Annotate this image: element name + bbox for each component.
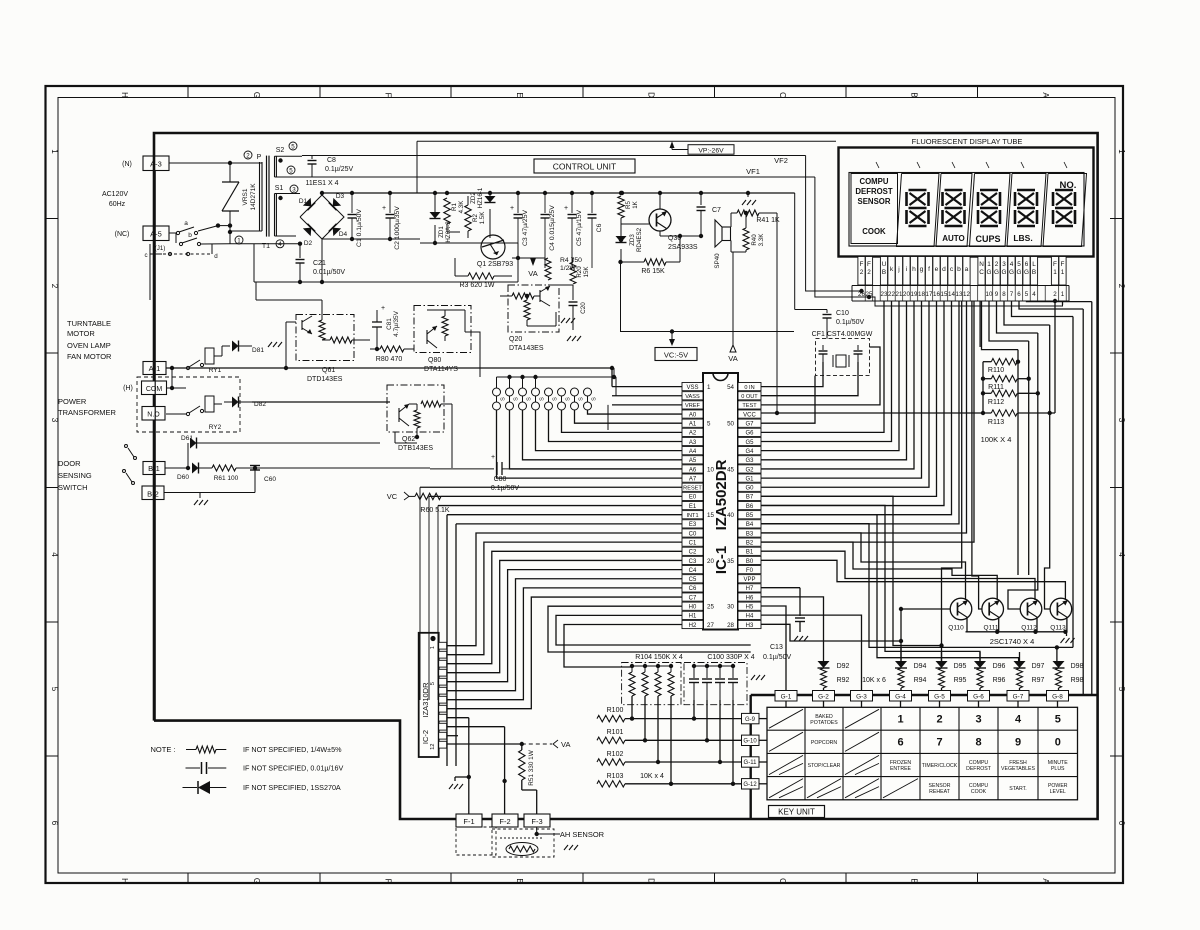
switch contact b bbox=[175, 233, 177, 243]
svg-text:1: 1 bbox=[897, 714, 903, 726]
svg-text:TEST: TEST bbox=[742, 403, 757, 409]
svg-text:22: 22 bbox=[888, 291, 895, 298]
svg-text:F: F bbox=[860, 261, 864, 268]
svg-text:C2: C2 bbox=[689, 550, 697, 556]
wires C100 columns down bbox=[693, 700, 695, 719]
resistor R94 bbox=[898, 668, 904, 688]
block Q62 DTB143ES bbox=[387, 385, 444, 432]
gate terminal G-9 bbox=[742, 713, 760, 723]
svg-text:CUPS: CUPS bbox=[975, 234, 1000, 244]
svg-text:0.1µ/50V: 0.1µ/50V bbox=[491, 485, 519, 492]
svg-text:D61: D61 bbox=[181, 435, 193, 442]
svg-text:11ES1 X 4: 11ES1 X 4 bbox=[306, 180, 339, 187]
svg-text:R113: R113 bbox=[988, 419, 1004, 426]
svg-text:S: S bbox=[553, 397, 559, 401]
svg-text:R6 15K: R6 15K bbox=[641, 268, 665, 275]
svg-text:A5: A5 bbox=[689, 458, 697, 464]
svg-text:S: S bbox=[514, 397, 520, 401]
IC-1 pin G7 bbox=[738, 419, 761, 427]
svg-text:SWITCH: SWITCH bbox=[58, 483, 88, 492]
svg-text:6: 6 bbox=[1117, 821, 1126, 826]
svg-text:C1 0.1µ/50V: C1 0.1µ/50V bbox=[356, 209, 363, 247]
resistor R40 3.3K bbox=[743, 228, 749, 250]
transistor Q1 2SB793 bbox=[481, 235, 505, 259]
IC-2 pin 10 bbox=[439, 723, 447, 730]
svg-text:H2: H2 bbox=[689, 623, 697, 629]
svg-text:F: F bbox=[384, 93, 393, 98]
svg-text:G: G bbox=[1002, 269, 1007, 276]
svg-text:6: 6 bbox=[50, 821, 59, 826]
svg-text:KEY UNIT: KEY UNIT bbox=[778, 808, 815, 817]
display digit 4 bbox=[1017, 189, 1035, 192]
svg-text:C4 0.015µ/25V: C4 0.015µ/25V bbox=[549, 205, 556, 251]
svg-text:VRS1: VRS1 bbox=[242, 188, 249, 205]
svg-text:A4: A4 bbox=[689, 449, 697, 455]
svg-text:VEGETABLES: VEGETABLES bbox=[1001, 766, 1035, 772]
wire top supply bus bbox=[322, 192, 795, 194]
IC-1 pin A2 bbox=[682, 428, 703, 436]
wires right bundle bottom bbox=[1069, 647, 1073, 649]
svg-text:C10: C10 bbox=[836, 310, 849, 317]
svg-text:Q110: Q110 bbox=[948, 625, 964, 632]
svg-text:A2: A2 bbox=[689, 431, 697, 437]
zener ZD1 HZ6A-3 bbox=[434, 193, 436, 218]
IC-2 pin 7 bbox=[439, 696, 447, 703]
svg-text:VA: VA bbox=[528, 269, 537, 278]
terminal A-3 bbox=[143, 156, 169, 171]
wire mid return bbox=[322, 238, 420, 240]
capacitor C1 bbox=[351, 193, 353, 213]
svg-text:CF1 CST4.00MGW: CF1 CST4.00MGW bbox=[812, 331, 873, 338]
diode D97 bbox=[1014, 661, 1026, 668]
svg-text:DEFROST: DEFROST bbox=[855, 187, 892, 196]
capacitor C21 bbox=[299, 244, 301, 258]
ground transistors bbox=[1066, 632, 1068, 636]
IC-1 pin INT1 bbox=[682, 511, 703, 519]
svg-text:3: 3 bbox=[1117, 418, 1126, 423]
capacitor C60 bbox=[253, 466, 257, 470]
svg-text:12: 12 bbox=[963, 291, 970, 298]
svg-text:A7: A7 bbox=[689, 476, 697, 482]
IC-1 pin G4 bbox=[738, 447, 761, 455]
svg-text:R110: R110 bbox=[988, 367, 1004, 374]
resistor R5 1K bbox=[620, 193, 622, 196]
diode D95 bbox=[936, 661, 948, 668]
display digit 5 bbox=[1055, 189, 1073, 192]
svg-text:G: G bbox=[1024, 269, 1029, 276]
IC-2 pin 4 bbox=[439, 669, 447, 676]
svg-text:G: G bbox=[987, 269, 992, 276]
svg-text:A-3: A-3 bbox=[150, 160, 162, 169]
IC-1 pin C3 bbox=[682, 556, 703, 564]
svg-text:27: 27 bbox=[707, 622, 714, 629]
svg-text:S: S bbox=[579, 397, 585, 401]
svg-text:G-4: G-4 bbox=[895, 694, 906, 701]
svg-text:B4: B4 bbox=[746, 522, 754, 528]
svg-text:D2: D2 bbox=[304, 240, 313, 247]
svg-text:15K: 15K bbox=[583, 266, 590, 278]
capacitor C6 bbox=[591, 193, 593, 213]
svg-text:ZD2: ZD2 bbox=[470, 192, 477, 204]
wire H0-H2 left down bbox=[548, 606, 751, 652]
svg-text:C60: C60 bbox=[264, 476, 276, 483]
svg-text:14: 14 bbox=[948, 291, 955, 298]
svg-text:0.01µ/50V: 0.01µ/50V bbox=[313, 269, 345, 276]
resistor R2 1.5K bbox=[465, 205, 471, 231]
wire F1 return bbox=[869, 297, 1063, 306]
svg-text:TURNTABLE: TURNTABLE bbox=[67, 319, 111, 328]
svg-text:B3: B3 bbox=[746, 531, 754, 537]
IC-1 pin VPP bbox=[738, 575, 761, 583]
diode D1 bbox=[303, 198, 315, 210]
svg-text:POPCORN: POPCORN bbox=[811, 740, 837, 746]
resistor R92 bbox=[821, 668, 827, 688]
svg-text:VSS: VSS bbox=[686, 385, 698, 391]
keypad grid bbox=[767, 707, 1078, 800]
svg-text:R41 1K: R41 1K bbox=[756, 217, 780, 224]
resistor R1 4.3K bbox=[446, 193, 448, 198]
resistor R97 bbox=[1017, 668, 1023, 688]
svg-text:H: H bbox=[120, 92, 129, 98]
svg-text:B: B bbox=[882, 269, 886, 276]
svg-text:C4: C4 bbox=[689, 568, 697, 574]
svg-text:E3: E3 bbox=[689, 522, 697, 528]
svg-text:13: 13 bbox=[956, 291, 963, 298]
svg-text:D60: D60 bbox=[177, 474, 189, 481]
svg-text:1.5K: 1.5K bbox=[479, 211, 486, 225]
IC-1 pin E1 bbox=[682, 501, 703, 509]
svg-text:S: S bbox=[527, 397, 533, 401]
svg-text:R97: R97 bbox=[1032, 677, 1045, 684]
svg-text:6: 6 bbox=[1017, 291, 1021, 298]
svg-text:A-5: A-5 bbox=[150, 230, 162, 239]
IC-1 pin H6 bbox=[738, 593, 761, 601]
svg-text:ENTREE: ENTREE bbox=[890, 766, 912, 772]
svg-text:A: A bbox=[1041, 878, 1050, 884]
svg-text:7: 7 bbox=[1010, 291, 1014, 298]
svg-text:G: G bbox=[252, 92, 261, 98]
switch contact a bbox=[169, 232, 176, 234]
svg-text:f: f bbox=[928, 266, 930, 273]
transistor Q113 bbox=[1050, 598, 1072, 620]
IC-1 pin H1 bbox=[682, 611, 703, 619]
svg-text:4: 4 bbox=[278, 241, 282, 248]
diode D2 bbox=[303, 224, 315, 236]
svg-text:25: 25 bbox=[707, 604, 714, 611]
svg-text:Q20: Q20 bbox=[509, 336, 522, 343]
svg-text:4: 4 bbox=[50, 552, 59, 557]
svg-text:G-11: G-11 bbox=[744, 760, 758, 766]
svg-text:R80 470: R80 470 bbox=[376, 356, 403, 363]
svg-text:G: G bbox=[252, 878, 261, 884]
svg-text:0.1µ/25V: 0.1µ/25V bbox=[325, 166, 353, 173]
svg-text:+: + bbox=[491, 454, 495, 461]
svg-text:S: S bbox=[501, 397, 507, 401]
svg-text:9: 9 bbox=[1015, 737, 1021, 749]
svg-text:FAN MOTOR: FAN MOTOR bbox=[67, 352, 112, 361]
terminal A-1 bbox=[143, 362, 166, 375]
diode D96 bbox=[974, 661, 986, 668]
capacitor C80 bbox=[430, 468, 494, 470]
svg-text:H4: H4 bbox=[746, 614, 754, 620]
IC-1 pin B0 bbox=[738, 556, 761, 564]
gate terminal G-11 bbox=[742, 757, 760, 767]
svg-text:F-1: F-1 bbox=[463, 817, 474, 826]
svg-text:INT1: INT1 bbox=[686, 513, 698, 519]
wire S1 to bridge bbox=[299, 194, 301, 218]
svg-text:C13: C13 bbox=[770, 644, 783, 651]
svg-text:G-3: G-3 bbox=[856, 694, 867, 701]
svg-text:VA: VA bbox=[728, 354, 737, 363]
svg-text:AC120V: AC120V bbox=[102, 191, 128, 198]
svg-text:RESET: RESET bbox=[683, 486, 702, 492]
svg-text:DTB143ES: DTB143ES bbox=[398, 445, 433, 452]
svg-text:C5 47µ/15V: C5 47µ/15V bbox=[576, 210, 583, 247]
svg-text:COMPU: COMPU bbox=[859, 177, 888, 186]
svg-text:SP40: SP40 bbox=[714, 253, 721, 269]
svg-text:B0: B0 bbox=[746, 559, 754, 565]
wire IC-1 pin G7 bbox=[761, 376, 815, 424]
key unit bus bbox=[751, 694, 1098, 696]
relay dashed box bbox=[137, 377, 240, 432]
svg-text:45: 45 bbox=[727, 466, 734, 473]
IC-1 pin 0 OUT bbox=[738, 392, 761, 400]
transistor base wires bbox=[901, 608, 950, 610]
svg-text:D94: D94 bbox=[914, 663, 927, 670]
svg-text:H5: H5 bbox=[746, 605, 754, 611]
svg-text:CONTROL UNIT: CONTROL UNIT bbox=[553, 162, 616, 172]
svg-text:B2: B2 bbox=[746, 540, 754, 546]
svg-text:S1: S1 bbox=[275, 185, 284, 192]
VC -5V box bbox=[655, 348, 697, 361]
svg-text:H6: H6 bbox=[746, 595, 754, 601]
svg-text:7: 7 bbox=[936, 737, 942, 749]
svg-text:G-1: G-1 bbox=[781, 694, 792, 701]
terminal B-2 bbox=[142, 486, 164, 500]
svg-text:D: D bbox=[647, 878, 656, 884]
svg-text:A: A bbox=[1041, 92, 1050, 98]
svg-text:26: 26 bbox=[858, 291, 865, 298]
resistor R80 470 bbox=[369, 340, 371, 349]
gate terminal G-10 bbox=[742, 735, 760, 745]
ground above R41 bbox=[747, 193, 749, 197]
svg-text:VA: VA bbox=[561, 740, 570, 749]
wire bottom return bus bbox=[254, 281, 518, 283]
svg-text:10: 10 bbox=[986, 291, 993, 298]
svg-text:0.1µ/50V: 0.1µ/50V bbox=[836, 319, 864, 326]
capacitor C5 bbox=[571, 193, 573, 213]
diode D98 bbox=[1053, 661, 1065, 668]
jumper top wires bbox=[497, 376, 615, 378]
svg-text:G: G bbox=[1017, 269, 1022, 276]
svg-text:R51 330 1W: R51 330 1W bbox=[528, 749, 535, 785]
transistor block Q61 DTD143ES bbox=[296, 315, 354, 361]
svg-text:MOTOR: MOTOR bbox=[67, 329, 95, 338]
diode D81 bbox=[221, 346, 223, 356]
svg-text:4: 4 bbox=[1032, 291, 1036, 298]
diode D82 bbox=[214, 403, 222, 405]
svg-text:VPP: VPP bbox=[743, 577, 755, 583]
svg-text:19: 19 bbox=[911, 291, 918, 298]
IC-1 pin E3 bbox=[682, 520, 703, 528]
IC-1 pin A3 bbox=[682, 437, 703, 445]
svg-text:C6: C6 bbox=[689, 586, 697, 592]
svg-text:R95: R95 bbox=[954, 677, 967, 684]
diode D61 bbox=[165, 467, 188, 469]
svg-text:R40: R40 bbox=[751, 234, 758, 246]
svg-text:TIMER/CLOCK: TIMER/CLOCK bbox=[922, 763, 958, 769]
svg-text:G5: G5 bbox=[745, 440, 754, 446]
svg-text:D98: D98 bbox=[1071, 663, 1084, 670]
svg-text:R100: R100 bbox=[607, 707, 624, 714]
IC-1 pin C4 bbox=[682, 566, 703, 574]
IC-1 pin C0 bbox=[682, 529, 703, 537]
svg-text:1K: 1K bbox=[632, 200, 639, 208]
svg-text:ZD1: ZD1 bbox=[438, 226, 445, 238]
svg-text:50: 50 bbox=[727, 421, 734, 428]
svg-text:R60 5.1K: R60 5.1K bbox=[420, 507, 450, 514]
svg-text:+: + bbox=[381, 305, 385, 312]
IC-1 pin H0 bbox=[682, 602, 703, 610]
svg-text:1: 1 bbox=[1117, 149, 1126, 154]
svg-text:b: b bbox=[957, 266, 961, 273]
svg-text:POWER: POWER bbox=[58, 397, 87, 406]
svg-text:40: 40 bbox=[727, 512, 734, 519]
svg-text:F0: F0 bbox=[746, 568, 754, 574]
svg-text:(N): (N) bbox=[122, 161, 132, 168]
diode D4 bbox=[329, 224, 341, 236]
capacitor C10 bbox=[794, 193, 796, 310]
svg-text:H0: H0 bbox=[689, 605, 697, 611]
transistor block Q80 DTA114YS bbox=[414, 306, 471, 353]
svg-text:R94: R94 bbox=[914, 677, 927, 684]
svg-text:28: 28 bbox=[727, 622, 734, 629]
IC-1 pin H5 bbox=[738, 602, 761, 610]
svg-text:G-7: G-7 bbox=[1013, 694, 1024, 701]
svg-text:VP:-26V: VP:-26V bbox=[698, 147, 724, 154]
IC-1 pin VCC bbox=[738, 410, 761, 418]
resistor R41 1K bbox=[737, 210, 759, 216]
wire display pin bundle right bbox=[982, 301, 1019, 350]
svg-text:LEVEL: LEVEL bbox=[1050, 789, 1066, 795]
wire VF2 bbox=[302, 155, 806, 157]
resistor R3 620 1W bbox=[455, 275, 468, 277]
svg-text:a: a bbox=[184, 220, 188, 227]
svg-text:10K x 6: 10K x 6 bbox=[862, 677, 886, 684]
svg-text:2SA933S: 2SA933S bbox=[668, 244, 698, 251]
wire COM bus bbox=[167, 387, 172, 389]
display tube pins bbox=[858, 257, 865, 286]
svg-text:4.7µ/35V: 4.7µ/35V bbox=[393, 310, 400, 336]
svg-text:3: 3 bbox=[292, 186, 296, 193]
VP -26V box bbox=[688, 145, 734, 155]
svg-text:G0: G0 bbox=[745, 486, 754, 492]
svg-text:A0: A0 bbox=[689, 412, 697, 418]
svg-text:C20: C20 bbox=[580, 302, 587, 314]
svg-text:R103: R103 bbox=[607, 773, 624, 780]
capacitor C20 bbox=[572, 290, 574, 300]
svg-text:(J1): (J1) bbox=[155, 245, 166, 252]
jumper connector field bbox=[493, 388, 501, 396]
svg-text:AH SENSOR: AH SENSOR bbox=[560, 830, 605, 839]
svg-text:G-12: G-12 bbox=[743, 782, 757, 788]
svg-text:Q62: Q62 bbox=[402, 436, 415, 443]
IC-1 pin G1 bbox=[738, 474, 761, 482]
svg-text:S: S bbox=[592, 397, 598, 401]
svg-text:D4: D4 bbox=[339, 231, 348, 238]
svg-text:9: 9 bbox=[995, 291, 999, 298]
IC-2 pin 1 bbox=[439, 642, 447, 649]
svg-text:2: 2 bbox=[936, 714, 942, 726]
svg-text:C: C bbox=[778, 878, 787, 884]
gate terminal G-8 bbox=[1047, 691, 1069, 702]
IC-1 pin RESET bbox=[682, 483, 703, 491]
wire bundle IC-1 B pins to keypad bbox=[761, 496, 942, 661]
svg-text:5: 5 bbox=[289, 167, 293, 174]
wire Q62 to bus bbox=[416, 437, 418, 443]
svg-text:2: 2 bbox=[246, 152, 250, 159]
svg-text:5: 5 bbox=[707, 421, 711, 428]
svg-text:RD4ES2: RD4ES2 bbox=[636, 227, 643, 252]
display inner panel bbox=[849, 173, 1084, 247]
svg-text:18: 18 bbox=[918, 291, 925, 298]
transformer core bbox=[266, 156, 268, 237]
IC-1 pin B4 bbox=[738, 520, 761, 528]
svg-text:5: 5 bbox=[430, 682, 436, 685]
svg-text:A6: A6 bbox=[689, 467, 697, 473]
svg-text:C8: C8 bbox=[327, 157, 336, 164]
wire IC-2 lower pins bbox=[447, 717, 469, 719]
svg-text:5: 5 bbox=[50, 687, 59, 692]
svg-text:C1: C1 bbox=[689, 540, 697, 546]
svg-text:Q1 2SB793: Q1 2SB793 bbox=[477, 261, 513, 268]
capacitor C7 bbox=[700, 193, 702, 205]
resistor R61 100 bbox=[212, 465, 236, 471]
svg-text:OVEN LAMP: OVEN LAMP bbox=[67, 341, 111, 350]
wire F1 pins bbox=[1054, 301, 1056, 413]
svg-text:SENSING: SENSING bbox=[58, 471, 92, 480]
svg-text:e: e bbox=[935, 266, 939, 273]
svg-text:C7: C7 bbox=[689, 595, 697, 601]
IC-2 pin 6 bbox=[439, 687, 447, 694]
svg-text:2: 2 bbox=[867, 269, 871, 276]
block Q20 DTA143ES bbox=[508, 285, 559, 332]
IC-1 pin VREF bbox=[682, 401, 703, 409]
svg-text:C: C bbox=[778, 92, 787, 98]
svg-text:VF1: VF1 bbox=[746, 167, 760, 176]
svg-text:G: G bbox=[1009, 269, 1014, 276]
svg-text:25: 25 bbox=[866, 291, 873, 298]
svg-text:E0: E0 bbox=[689, 495, 697, 501]
svg-text:30: 30 bbox=[727, 604, 734, 611]
diode D92 bbox=[818, 661, 830, 668]
svg-text:P: P bbox=[257, 154, 262, 161]
svg-text:2: 2 bbox=[995, 261, 999, 268]
svg-text:(H): (H) bbox=[123, 385, 133, 392]
wire H-pin right connections bbox=[761, 587, 800, 589]
terminal N.O bbox=[142, 407, 165, 421]
gate terminal G-6 bbox=[968, 691, 990, 702]
KEY UNIT label bbox=[769, 806, 825, 818]
svg-text:R101: R101 bbox=[607, 729, 624, 736]
svg-text:POTATOES: POTATOES bbox=[810, 720, 838, 726]
svg-text:100K X 4: 100K X 4 bbox=[981, 435, 1012, 444]
IC-1 pin G0 bbox=[738, 483, 761, 491]
svg-text:d: d bbox=[942, 266, 946, 273]
svg-text:C2 1000µ/35V: C2 1000µ/35V bbox=[394, 206, 401, 250]
svg-text:IF NOT SPECIFIED, 0.01µ/16V: IF NOT SPECIFIED, 0.01µ/16V bbox=[243, 764, 343, 773]
svg-text:b: b bbox=[188, 232, 192, 239]
